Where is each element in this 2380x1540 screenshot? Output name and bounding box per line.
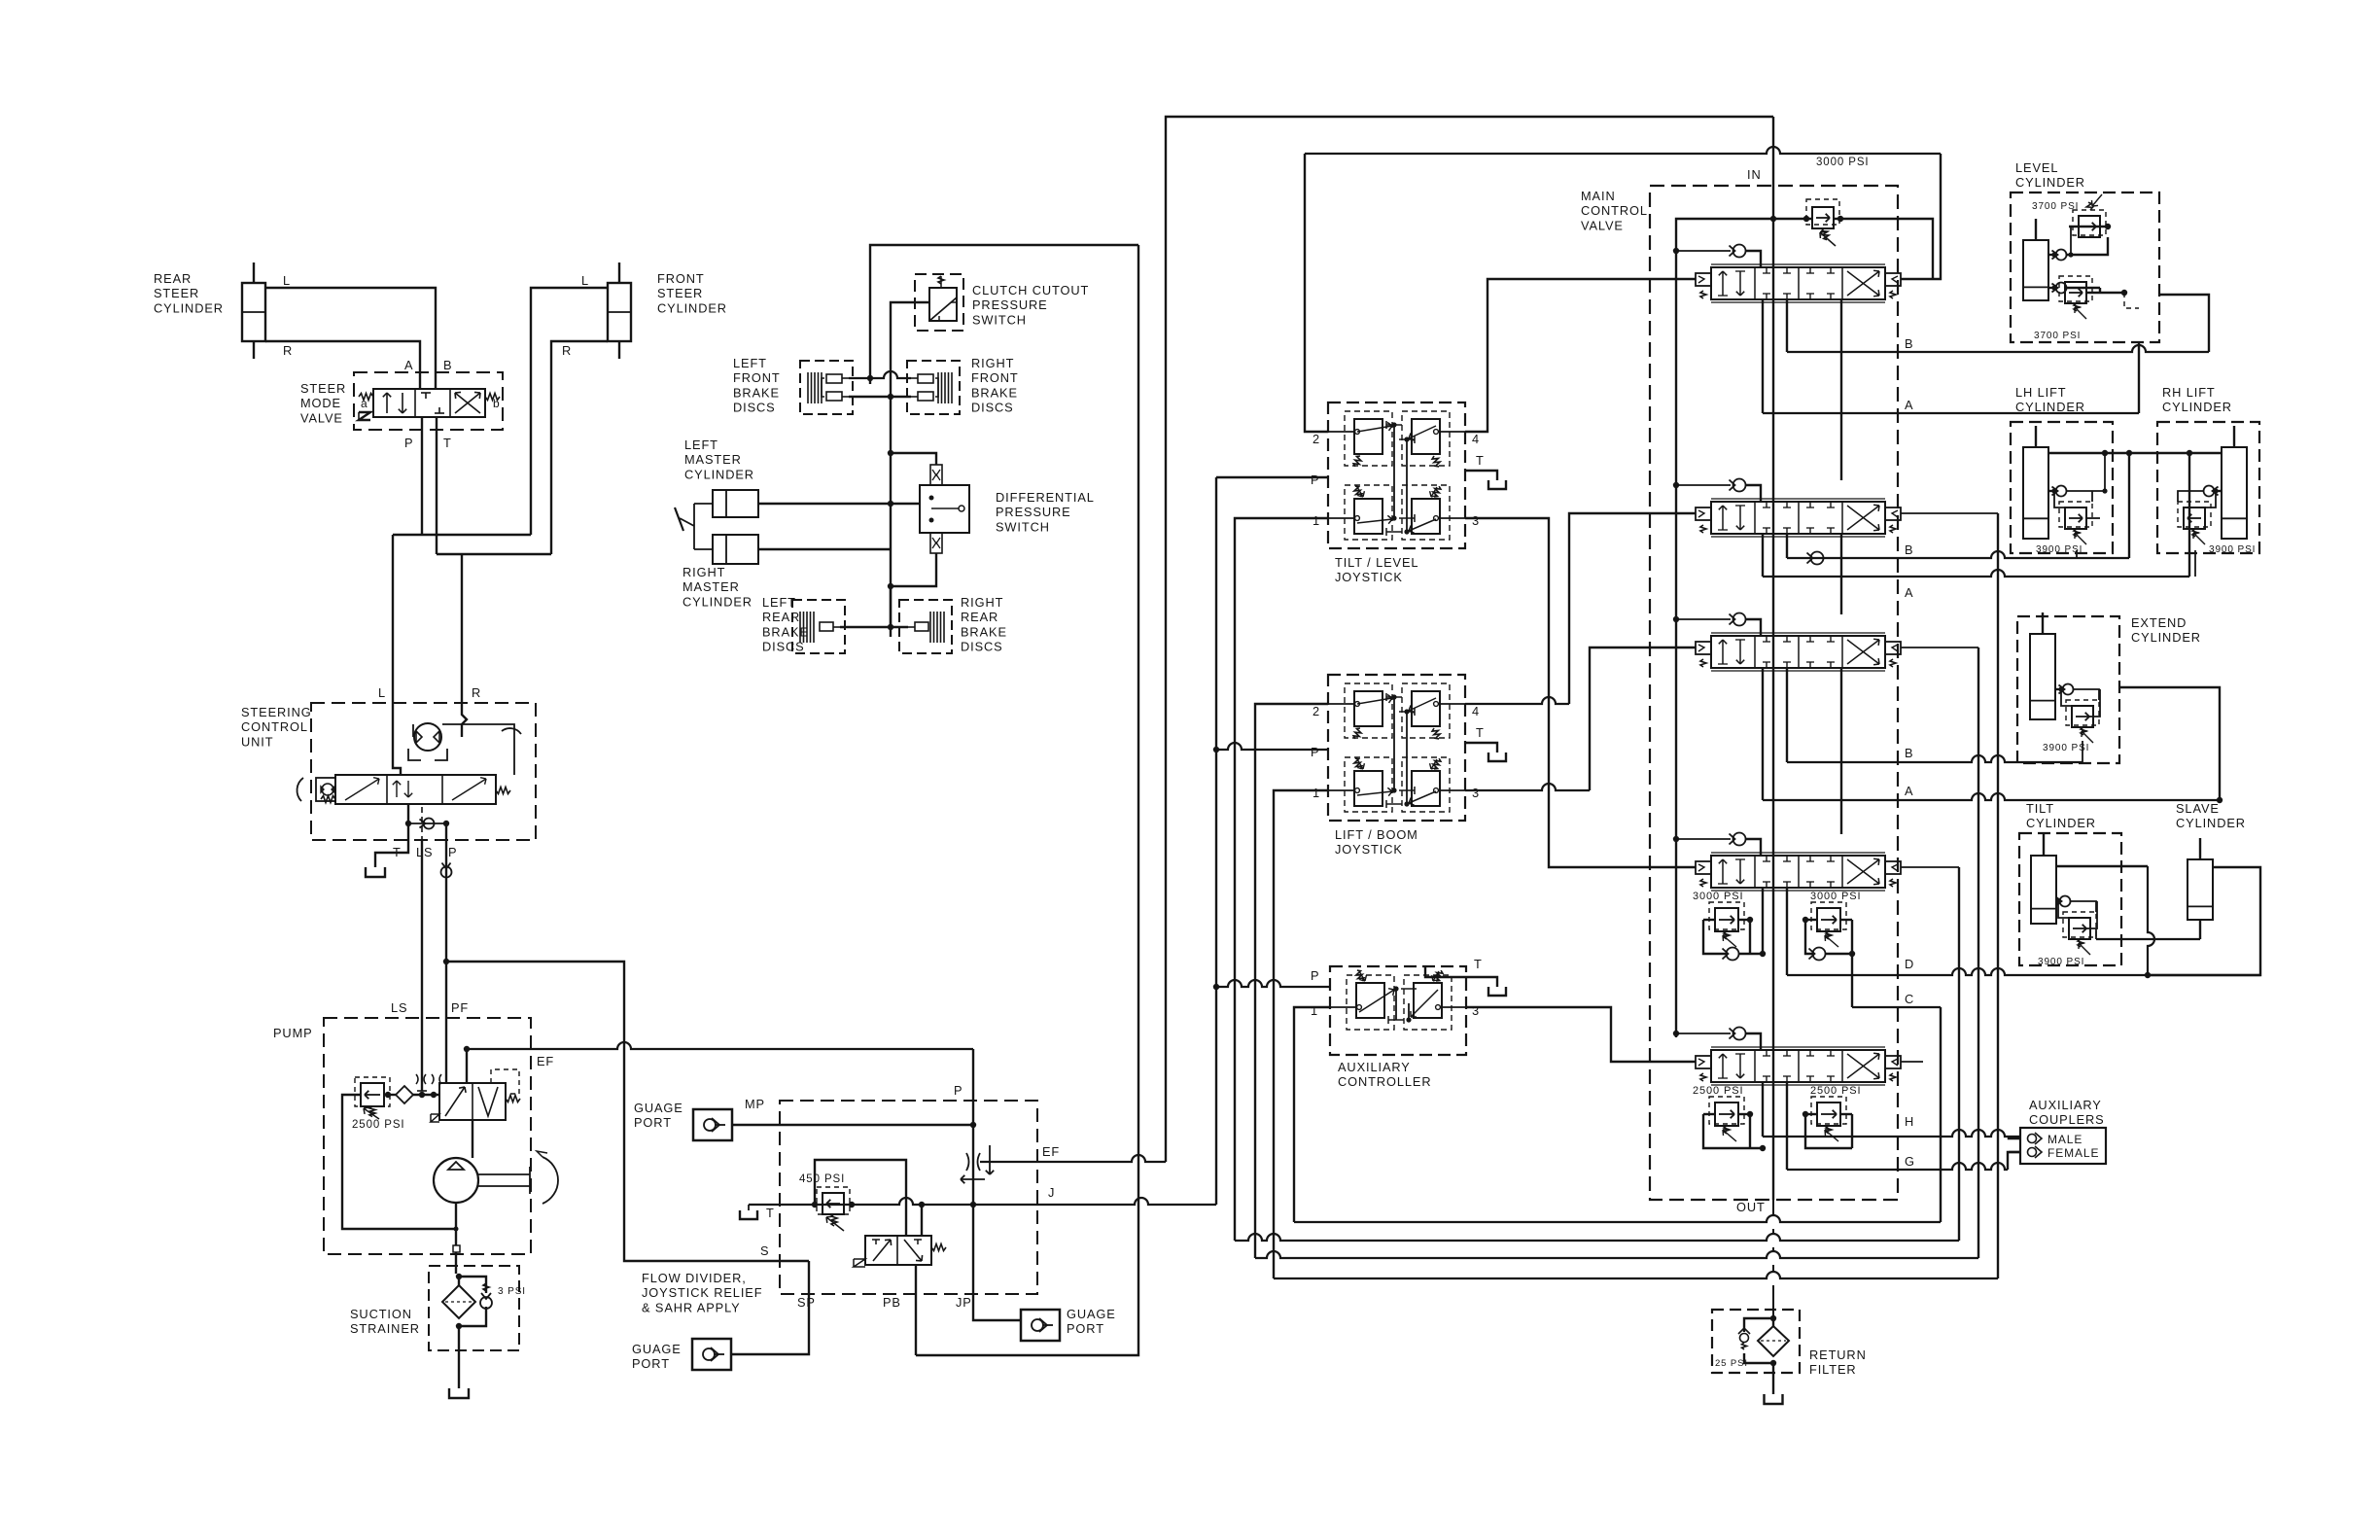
wire section4 C out: [1851, 954, 1853, 1007]
svg-text:FRONT: FRONT: [733, 370, 781, 385]
rear steer cylinder: [242, 283, 265, 341]
diff switch upper orifice: [930, 465, 942, 485]
wire H to male: [2009, 1137, 2020, 1138]
SCU springs: [321, 796, 335, 803]
svg-text:A: A: [1905, 398, 1913, 412]
extend cylinder dashed box: [2017, 616, 2119, 763]
wire P down to pump: [445, 823, 447, 1083]
wire section2 A out: [1762, 534, 1764, 577]
MCV relief valve 3000 psi: [1812, 207, 1834, 228]
wire LS down to pump: [421, 840, 423, 1091]
wire T/L port3: [1465, 518, 1696, 867]
wire rear L to steer valve B: [265, 288, 436, 389]
svg-text:T: T: [1474, 957, 1483, 971]
svg-text:PRESSURE: PRESSURE: [996, 505, 1071, 519]
svg-text:DIFFERENTIAL: DIFFERENTIAL: [996, 490, 1095, 505]
svg-text:PORT: PORT: [632, 1356, 670, 1371]
svg-text:RETURN: RETURN: [1809, 1347, 1867, 1362]
svg-text:EF: EF: [1042, 1144, 1060, 1159]
wire L/B port3: [1465, 784, 1590, 790]
svg-text:B: B: [443, 358, 452, 372]
svg-text:FRONT: FRONT: [657, 271, 705, 286]
wire lift cylinders rod line: [2048, 452, 2222, 454]
svg-text:3: 3: [1472, 1003, 1480, 1018]
svg-text:2500 PSI: 2500 PSI: [352, 1119, 405, 1131]
pump filter diamond: [396, 1086, 413, 1103]
svg-text:P: P: [1311, 968, 1319, 983]
extend cylinder: [2030, 634, 2055, 719]
wire G to female: [2009, 1151, 2020, 1153]
wire front brakes lower: [849, 396, 911, 398]
svg-text:4: 4: [1472, 432, 1480, 446]
svg-text:P: P: [1311, 472, 1319, 487]
wire lift B riser: [2128, 453, 2130, 558]
pump dashed box: [324, 1018, 531, 1254]
svg-text:PUMP: PUMP: [273, 1026, 313, 1040]
level cylinder plumbing: [2048, 254, 2054, 256]
svg-text:OUT: OUT: [1736, 1200, 1766, 1214]
svg-text:D: D: [1905, 957, 1914, 971]
steer mode valve crossed arrows: [455, 393, 480, 413]
svg-text:FILTER: FILTER: [1809, 1362, 1857, 1377]
wire section3 A out: [1762, 668, 1764, 800]
wire P from EF pump: [973, 1049, 1022, 1320]
svg-text:C: C: [1905, 992, 1914, 1006]
wire AUX port1: [1294, 1007, 1330, 1222]
brake pedal: [694, 503, 713, 505]
svg-text:PORT: PORT: [1067, 1321, 1104, 1336]
wire T/L port2: [1305, 154, 1328, 432]
svg-text:L: L: [378, 685, 386, 700]
sahr apply valve: [865, 1236, 931, 1265]
svg-text:3700 PSI: 3700 PSI: [2032, 201, 2079, 212]
svg-text:STEER: STEER: [657, 286, 703, 300]
SCU left rotation arc: [297, 778, 303, 801]
svg-text:AUXILIARY: AUXILIARY: [1338, 1060, 1411, 1074]
section5 right relief: [1817, 1102, 1840, 1126]
suction strainer dashed box: [429, 1266, 519, 1350]
svg-text:GUAGE: GUAGE: [634, 1101, 683, 1115]
pump relief left loop: [342, 1095, 456, 1229]
svg-text:RH LIFT: RH LIFT: [2162, 385, 2216, 400]
wire L/B port4: [1465, 697, 1569, 704]
svg-text:B: B: [1905, 746, 1913, 760]
svg-text:DISCS: DISCS: [733, 401, 776, 415]
wire diff switch bottom: [891, 553, 936, 586]
svg-text:P: P: [1311, 745, 1319, 759]
svg-text:A: A: [404, 358, 413, 372]
svg-text:MASTER: MASTER: [684, 452, 742, 467]
svg-text:3900 PSI: 3900 PSI: [2036, 544, 2082, 555]
flow divider tank: [748, 1205, 750, 1210]
wire return bus B: [1235, 1234, 1959, 1241]
strainer bypass check 3 psi: [459, 1277, 486, 1293]
pump 3way valve: [439, 1083, 506, 1120]
svg-text:VALVE: VALVE: [1581, 218, 1624, 232]
wire section3 B out: [1786, 668, 1788, 762]
svg-text:CYLINDER: CYLINDER: [2015, 400, 2085, 414]
svg-text:3000 PSI: 3000 PSI: [1693, 891, 1743, 902]
lh lift cylinder: [2023, 447, 2048, 539]
svg-text:P: P: [404, 436, 413, 450]
section4 relief plumbing: [1703, 919, 1715, 921]
svg-text:S: S: [760, 1243, 769, 1258]
svg-text:B: B: [1905, 336, 1913, 351]
svg-text:2500 PSI: 2500 PSI: [1693, 1085, 1743, 1097]
wire L/B port2: [1255, 704, 1328, 1258]
svg-text:3000 PSI: 3000 PSI: [1816, 157, 1870, 168]
svg-text:MALE: MALE: [2047, 1133, 2082, 1146]
female coupler symbol: [2028, 1148, 2037, 1157]
MCV section 5 spool valve: [1673, 1031, 1679, 1036]
wire L/B P: [1216, 743, 1328, 750]
svg-text:JOYSTICK RELIEF: JOYSTICK RELIEF: [642, 1285, 762, 1300]
extend relief 3900 psi: [2072, 706, 2093, 727]
svg-text:b: b: [493, 397, 501, 410]
svg-text:GUAGE: GUAGE: [632, 1342, 682, 1356]
MP guage port: [693, 1109, 732, 1140]
wire steer valve T to SCU R: [436, 417, 437, 554]
pump circle: [434, 1158, 478, 1203]
svg-text:FEMALE: FEMALE: [2047, 1146, 2099, 1160]
svg-text:CONTROLLER: CONTROLLER: [1338, 1074, 1431, 1089]
wire L/B port1: [1274, 790, 1328, 1278]
wire P rail riser: [1215, 477, 1217, 1205]
main control valve dashed box: [1650, 186, 1898, 1200]
svg-text:CYLINDER: CYLINDER: [2176, 816, 2246, 830]
tilt cylinder dashed box: [2019, 833, 2121, 965]
svg-text:STEERING: STEERING: [241, 705, 312, 719]
wire T/L port4: [1465, 279, 1696, 432]
extend plumbing: [2055, 688, 2061, 690]
svg-text:H: H: [1905, 1114, 1914, 1129]
wire relief out: [1834, 219, 1933, 279]
svg-text:CYLINDER: CYLINDER: [2015, 175, 2085, 190]
svg-text:T: T: [393, 845, 402, 859]
wire EF riser to IN: [1166, 117, 1773, 1162]
lh relief 3900 psi: [2065, 507, 2086, 529]
wire strainer to tank: [458, 1274, 460, 1285]
wire sec2 right pilot drain: [1901, 512, 1998, 514]
svg-text:LS: LS: [391, 1000, 407, 1015]
svg-text:P: P: [954, 1083, 962, 1098]
wire level A: [2138, 342, 2140, 413]
auxiliary controller box: [1330, 966, 1466, 1055]
tilt plumbing: [2056, 900, 2058, 902]
wire tilt top port: [2056, 865, 2148, 867]
wire carryover 3: [1840, 668, 1842, 834]
wire right master: [758, 548, 891, 550]
svg-text:LEFT: LEFT: [684, 437, 718, 452]
wire front L down: [531, 288, 608, 535]
svg-text:BRAKE: BRAKE: [762, 624, 809, 639]
svg-text:1: 1: [1312, 786, 1320, 800]
steer mode valve solenoid: [359, 412, 370, 420]
wire sahr pilot: [921, 1205, 923, 1236]
flow divider orifice: [966, 1153, 980, 1171]
wire P to flow divider branch: [446, 962, 809, 1261]
svg-text:GUAGE: GUAGE: [1067, 1307, 1116, 1321]
wire front brakes upper: [849, 371, 911, 378]
svg-text:BRAKE: BRAKE: [971, 385, 1018, 400]
svg-text:2: 2: [1312, 432, 1320, 446]
wire top feed to MCV right pilot: [1305, 147, 1941, 154]
svg-text:MASTER: MASTER: [682, 579, 740, 594]
wire MP: [732, 1124, 973, 1126]
svg-text:SWITCH: SWITCH: [972, 312, 1027, 327]
steering control unit dashed box: [311, 703, 536, 840]
MCV section 2 spool valve: [1673, 482, 1679, 488]
svg-text:EF: EF: [537, 1054, 554, 1068]
svg-text:CONTROL: CONTROL: [241, 719, 308, 734]
return tank symbol: [1765, 1394, 1783, 1404]
SCU gerotor: [414, 723, 441, 751]
right master cylinder: [713, 535, 758, 564]
svg-text:J: J: [1048, 1185, 1055, 1200]
svg-text:STRAINER: STRAINER: [350, 1321, 420, 1336]
wire return bus A: [1294, 1215, 1941, 1222]
rh relief 3900 psi: [2184, 507, 2205, 529]
wire AUX T to tank: [1425, 966, 1497, 987]
wire relief to valve: [384, 1094, 396, 1096]
svg-text:SLAVE: SLAVE: [2176, 801, 2220, 816]
steer mode valve body: [373, 389, 485, 417]
wire sec4 right pilot drain: [1901, 866, 1959, 868]
wire slave loop: [2148, 867, 2260, 975]
differential pressure switch: [920, 485, 969, 533]
wire SCU T port: [375, 804, 408, 867]
svg-text:25 PSI: 25 PSI: [1715, 1358, 1748, 1369]
wire steer valve P to SCU L: [421, 417, 423, 535]
wire AUX P: [1216, 980, 1330, 987]
svg-text:TILT / LEVEL: TILT / LEVEL: [1335, 555, 1418, 570]
wire section2 B out: [1786, 534, 1788, 558]
svg-text:CYLINDER: CYLINDER: [154, 300, 224, 315]
wire J line: [749, 1198, 1216, 1205]
svg-text:COUPLERS: COUPLERS: [2029, 1112, 2105, 1127]
svg-text:CYLINDER: CYLINDER: [684, 467, 754, 481]
pump relief valve 2500 psi: [361, 1083, 384, 1106]
svg-text:IN: IN: [1747, 167, 1762, 182]
wire SCU R to gerotor: [462, 703, 467, 737]
svg-text:3: 3: [1472, 786, 1480, 800]
pump valve pilot dashed: [491, 1069, 519, 1094]
return filter bypass check 25 psi: [1744, 1318, 1773, 1332]
rh lift cylinder: [2222, 447, 2247, 539]
svg-text:VALVE: VALVE: [300, 410, 343, 425]
steer mode valve dashed box: [354, 372, 503, 430]
svg-text:T: T: [766, 1206, 775, 1220]
wire section1 B out: [1786, 299, 1788, 352]
wire T/L T to tank: [1465, 471, 1497, 480]
svg-text:MODE: MODE: [300, 396, 341, 410]
svg-text:3900 PSI: 3900 PSI: [2209, 544, 2256, 555]
level cylinder dashed box: [2011, 192, 2159, 342]
svg-text:JP: JP: [956, 1295, 972, 1310]
section5 relief plumbing: [1703, 1113, 1715, 1115]
wire carryover 2: [1840, 534, 1842, 614]
SCU rotation arc: [502, 728, 521, 734]
svg-text:450 PSI: 450 PSI: [799, 1173, 845, 1185]
svg-text:FRONT: FRONT: [971, 370, 1019, 385]
svg-text:a: a: [361, 397, 368, 410]
wire carryover 1: [1840, 299, 1842, 480]
relief valve 450 psi: [822, 1193, 844, 1214]
right front brake discs: [907, 361, 960, 414]
svg-text:4: 4: [1472, 704, 1480, 718]
rh lift cylinder dashed box: [2157, 422, 2259, 553]
wire T/L port1: [1235, 518, 1328, 1241]
SCU tank symbol: [366, 867, 385, 877]
svg-text:MAIN: MAIN: [1581, 189, 1616, 203]
section4 left check: [1727, 948, 1739, 961]
wire OUT rail to filter: [1772, 1200, 1774, 1317]
wire IN down rail: [1772, 117, 1774, 1200]
svg-text:3000 PSI: 3000 PSI: [1810, 891, 1861, 902]
level check top: [2056, 250, 2067, 261]
SCU spool body: [335, 775, 496, 804]
svg-text:CYLINDER: CYLINDER: [2026, 816, 2096, 830]
svg-text:BRAKE: BRAKE: [961, 624, 1007, 639]
SCU steering wheel symbol: [316, 778, 335, 801]
SP guage port: [692, 1339, 731, 1370]
SCU check valve line: [408, 822, 446, 824]
svg-text:UNIT: UNIT: [241, 734, 273, 749]
wire sec5 right pilot stub: [1901, 1061, 1923, 1063]
svg-text:DISCS: DISCS: [971, 401, 1014, 415]
svg-text:& SAHR APPLY: & SAHR APPLY: [642, 1300, 741, 1314]
section4 left relief: [1715, 908, 1738, 931]
wire slave bottom: [2199, 920, 2201, 939]
svg-text:3: 3: [1472, 513, 1480, 528]
slave cylinder: [2187, 859, 2213, 920]
svg-text:JOYSTICK: JOYSTICK: [1335, 842, 1403, 857]
steer mode valve springs: [359, 394, 373, 401]
flow divider dashed box: [780, 1101, 1037, 1294]
clutch cutout pressure switch: [915, 274, 963, 331]
svg-text:STEER: STEER: [300, 381, 346, 396]
wire AUX port3: [1466, 1007, 1696, 1062]
pump shaft: [478, 1173, 530, 1175]
svg-text:LH LIFT: LH LIFT: [2015, 385, 2067, 400]
strainer diamond: [442, 1285, 475, 1318]
svg-text:L: L: [283, 273, 291, 288]
svg-text:PORT: PORT: [634, 1115, 672, 1130]
svg-text:R: R: [472, 685, 481, 700]
wire relief pilot loop: [815, 1160, 906, 1236]
svg-text:T: T: [443, 436, 452, 450]
wire EF from pump: [467, 1042, 973, 1049]
wire rh relief drop: [2194, 550, 2196, 577]
svg-text:LIFT / BOOM: LIFT / BOOM: [1335, 827, 1418, 842]
lh plumbing: [2048, 490, 2054, 492]
svg-text:REAR: REAR: [154, 271, 192, 286]
svg-text:AUXILIARY: AUXILIARY: [2029, 1098, 2102, 1112]
level check bottom: [2056, 283, 2067, 294]
wire section5 H out: [1762, 1082, 1764, 1137]
tilt check: [2060, 896, 2071, 907]
left rear brake discs: [792, 600, 845, 653]
wire section4 D out: [1762, 888, 1764, 954]
return filter diamond: [1758, 1326, 1789, 1356]
svg-text:LEFT: LEFT: [733, 356, 767, 370]
MCV section 4 spool valve: [1673, 836, 1679, 842]
svg-text:CYLINDER: CYLINDER: [2162, 400, 2232, 414]
level relief bottom 3700 psi: [2065, 282, 2086, 303]
svg-text:EXTEND: EXTEND: [2131, 615, 2187, 630]
lh check: [2056, 486, 2067, 497]
svg-text:2: 2: [1312, 704, 1320, 718]
svg-text:A: A: [1905, 784, 1913, 798]
svg-text:BRAKE: BRAKE: [733, 385, 780, 400]
svg-text:CONTROL: CONTROL: [1581, 203, 1648, 218]
wire relief feed: [1773, 218, 1812, 220]
rh check: [2204, 486, 2215, 497]
wire PB down: [915, 1265, 917, 1355]
svg-text:P: P: [448, 845, 457, 859]
svg-text:B: B: [1905, 542, 1913, 557]
svg-text:R: R: [283, 343, 293, 358]
wire EF out: [980, 1155, 1166, 1162]
left front brake discs: [800, 361, 853, 414]
svg-text:CLUTCH CUTOUT: CLUTCH CUTOUT: [972, 283, 1089, 297]
svg-text:SWITCH: SWITCH: [996, 519, 1050, 534]
tilt/level joystick: [1328, 402, 1465, 548]
wire return bus C: [1255, 1251, 1978, 1258]
svg-text:SUCTION: SUCTION: [350, 1307, 412, 1321]
wire clutch switch: [891, 302, 929, 637]
wire MCV left rail: [1676, 219, 1773, 1037]
left master cylinder: [713, 490, 758, 517]
wire tilt relief to slave: [2096, 938, 2200, 940]
svg-text:3 PSI: 3 PSI: [498, 1286, 526, 1297]
JP guage port: [1021, 1310, 1060, 1341]
wire lh relief to B: [2076, 550, 2078, 558]
wire extend B riser: [2082, 741, 2083, 762]
MCV section 1 spool valve: [1673, 248, 1679, 254]
svg-text:PF: PF: [451, 1000, 469, 1015]
SCU right loop: [442, 724, 514, 775]
lh lift cylinder dashed box: [2011, 422, 2113, 553]
svg-text:REAR: REAR: [762, 610, 800, 624]
wire pump to strainer: [455, 1203, 457, 1274]
wire return bus D: [1274, 1272, 1998, 1278]
svg-text:RIGHT: RIGHT: [961, 595, 1003, 610]
level cylinder: [2023, 240, 2048, 300]
svg-text:1: 1: [1311, 1003, 1318, 1018]
wire front R down: [551, 341, 608, 554]
extend check: [2063, 684, 2074, 695]
wire SCU L to gerotor: [393, 703, 401, 775]
svg-text:G: G: [1905, 1154, 1915, 1169]
svg-text:CYLINDER: CYLINDER: [682, 594, 752, 609]
lift/boom joystick: [1328, 675, 1465, 821]
svg-text:LEVEL: LEVEL: [2015, 160, 2058, 175]
wire left master to diff switch: [758, 503, 920, 505]
svg-text:SP: SP: [797, 1295, 816, 1310]
wire clutch pressure sense loop: [870, 245, 1138, 384]
right rear brake discs: [899, 600, 952, 653]
auxiliary couplers box: [2020, 1128, 2106, 1164]
tilt relief 3900 psi: [2069, 918, 2090, 939]
wire lift A riser: [2188, 453, 2190, 577]
svg-text:LS: LS: [416, 845, 433, 859]
tilt cylinder: [2031, 856, 2056, 924]
diff switch lower orifice: [930, 533, 942, 553]
svg-text:3900 PSI: 3900 PSI: [2038, 957, 2084, 967]
svg-text:DISCS: DISCS: [961, 640, 1003, 654]
svg-text:L: L: [581, 273, 589, 288]
